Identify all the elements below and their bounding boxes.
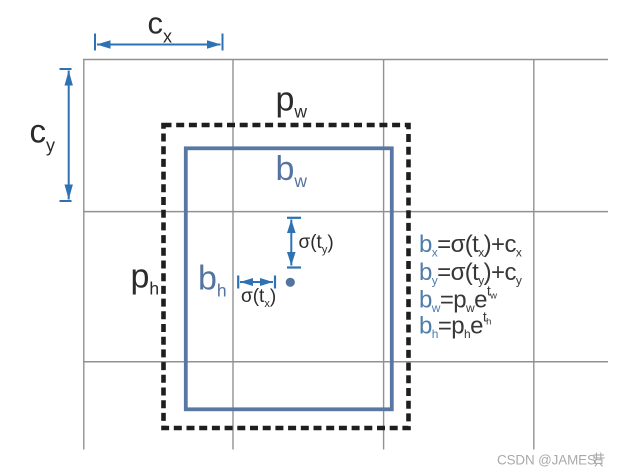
predicted box b_w x b_h (blue rectangle) (186, 148, 392, 409)
svg-text:CSDN @JAMES: CSDN @JAMES (497, 452, 596, 467)
c_y dimension arrow (60, 69, 73, 201)
grid vertical line 1 (83, 59, 85, 450)
c_x dimension arrow (95, 34, 223, 51)
grid horizontal line 2 (83, 211, 608, 213)
grid vertical line 3 (383, 59, 385, 450)
grid vertical line 2 (232, 59, 234, 450)
watermark CJK character fei (593, 453, 605, 467)
sigma(t_y) vertical arrow (287, 218, 301, 268)
grid horizontal line 1 (83, 59, 608, 61)
svg-text:bh=pheth: bh=pheth (419, 308, 491, 341)
svg-text:σ(tx): σ(tx) (241, 286, 276, 310)
svg-text:σ(ty): σ(ty) (299, 232, 334, 256)
anchor box p_w x p_h (dashed rectangle) (164, 125, 409, 428)
center point (box center dot) (286, 278, 295, 287)
grid vertical line 4 (533, 59, 535, 450)
sigma(t_x) horizontal arrow (238, 276, 275, 289)
grid horizontal line 3 (83, 361, 608, 363)
